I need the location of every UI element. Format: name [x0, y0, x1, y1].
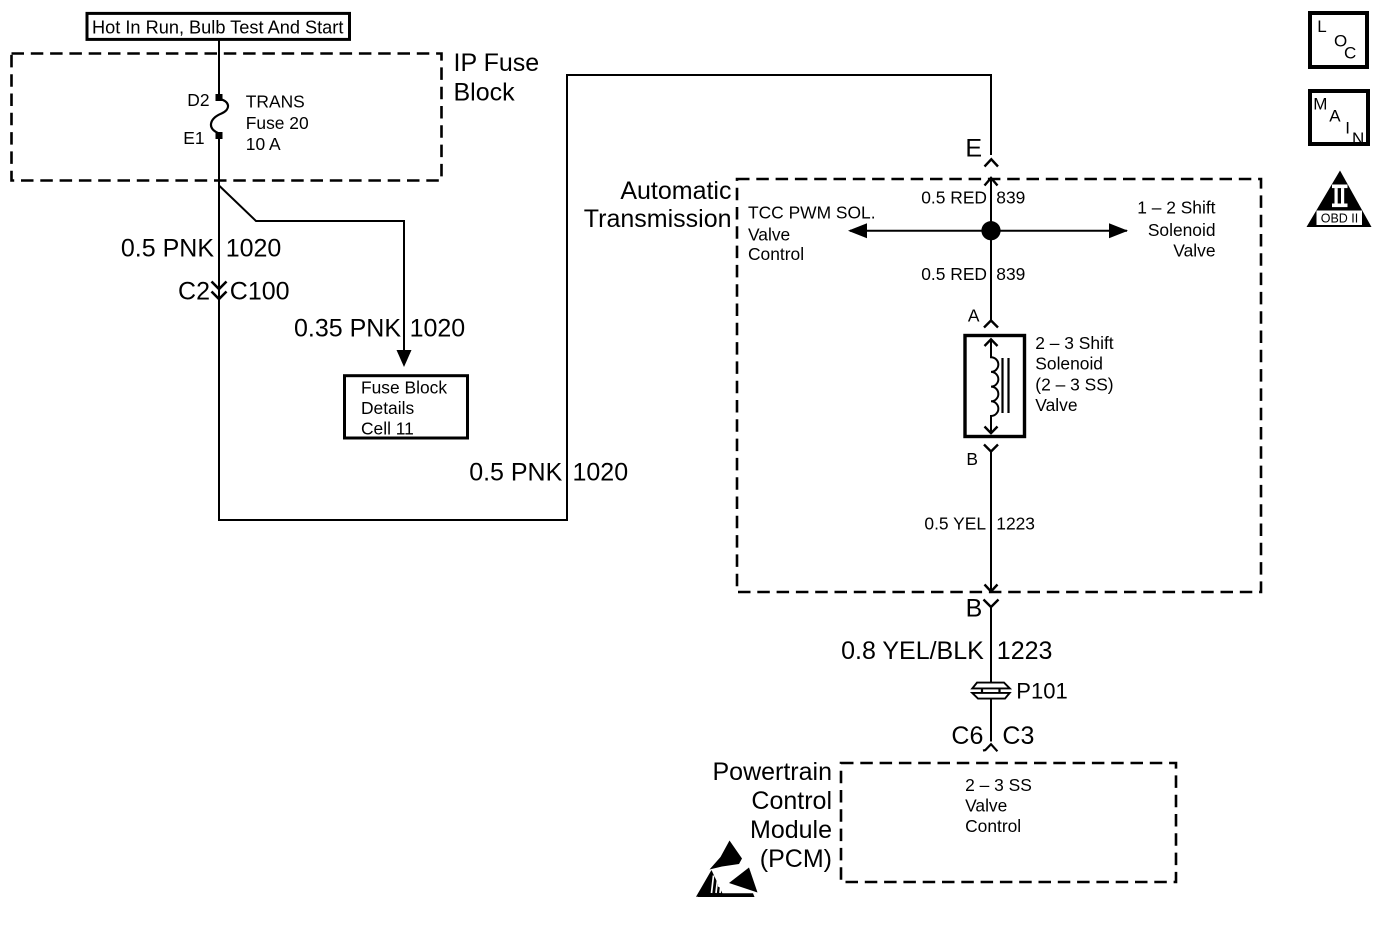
- svg-text:0.5 PNK: 0.5 PNK: [121, 234, 214, 262]
- wire B to P101: [990, 607, 992, 682]
- connector chevron C6/C3: [983, 744, 997, 751]
- fuse F20 terminal E1: [216, 132, 223, 139]
- arrowhead leaving transmission: [985, 585, 998, 592]
- fuse F20 terminal D2: [216, 94, 223, 101]
- svg-text:0.5 RED: 0.5 RED: [921, 264, 987, 284]
- arrowhead to TCC PWM: [848, 223, 867, 238]
- svg-text:M: M: [1313, 94, 1327, 113]
- wire E to junction: [990, 178, 992, 232]
- svg-text:1223: 1223: [997, 637, 1053, 665]
- svg-text:B: B: [966, 449, 978, 469]
- wire solenoid to transmission connector: [990, 452, 992, 591]
- svg-text:1020: 1020: [573, 459, 629, 487]
- IP Fuse Block dashed box: [12, 54, 442, 181]
- wire loop from C100 to transmission connector E: [219, 75, 991, 520]
- svg-text:1020: 1020: [410, 314, 466, 342]
- power feed label box: Hot In Run, Bulb Test And Start: [87, 13, 350, 39]
- connector chevron E: [985, 159, 999, 166]
- svg-text:C100: C100: [230, 278, 290, 306]
- label 0.35 PNK 1020: [294, 314, 465, 342]
- arrowhead entering connector E: [985, 178, 998, 186]
- svg-text:A: A: [1329, 106, 1341, 125]
- svg-text:OBD II: OBD II: [1321, 212, 1359, 226]
- svg-text:0.5 YEL: 0.5 YEL: [924, 514, 986, 534]
- connector C2/C100 symbol: [212, 282, 227, 300]
- wire label 0.5 RED 839 (second): [921, 264, 1025, 284]
- coil arrowhead down: [985, 427, 998, 434]
- wire junction to solenoid: [990, 240, 992, 320]
- svg-text:1020: 1020: [226, 234, 282, 262]
- fuse F20 element curve: [211, 99, 228, 133]
- svg-text:C6: C6: [951, 722, 983, 750]
- junction node: [981, 221, 1000, 240]
- Powertrain Control Module dashed box: [841, 763, 1176, 882]
- connector chevron A: [984, 321, 998, 328]
- svg-text:I: I: [1345, 118, 1350, 137]
- wire P101 to connector C6/C3: [990, 699, 992, 742]
- wire label 0.5 PNK 1020: [121, 234, 281, 262]
- 2-3 shift solenoid box: [965, 336, 1025, 437]
- svg-text:Hot In Run, Bulb Test And Star: Hot In Run, Bulb Test And Start: [92, 18, 343, 38]
- wire label 0.8 YEL/BLK 1223: [841, 637, 1052, 665]
- svg-text:839: 839: [996, 264, 1025, 284]
- fuse block details box: [345, 376, 468, 439]
- arrowhead to 1-2 shift solenoid: [1109, 223, 1128, 238]
- svg-text:0.5 RED: 0.5 RED: [921, 187, 987, 207]
- coil arrowhead up: [985, 339, 998, 346]
- branch wire to fuse block details: [219, 186, 404, 353]
- wire to TCC PWM and 1-2 shift solenoid: [850, 230, 1127, 232]
- svg-text:C: C: [1344, 44, 1356, 63]
- svg-text:0.35 PNK: 0.35 PNK: [294, 314, 401, 342]
- ESD sensitivity symbol: [696, 841, 758, 898]
- svg-text:C3: C3: [1002, 722, 1034, 750]
- inline connector P101: [972, 683, 1010, 699]
- solenoid core lines: [1001, 358, 1003, 413]
- svg-text:A: A: [968, 305, 980, 325]
- MAIN reference flag: [1310, 91, 1368, 148]
- svg-text:0.5 PNK: 0.5 PNK: [469, 459, 562, 487]
- Automatic Transmission dashed box: [737, 179, 1261, 592]
- LOC reference flag: [1310, 13, 1367, 67]
- svg-text:1223: 1223: [996, 514, 1035, 534]
- svg-text:B: B: [966, 594, 983, 622]
- svg-text:L: L: [1317, 17, 1326, 36]
- connector chevron B: [984, 445, 998, 452]
- arrowhead into fuse block details: [397, 350, 412, 367]
- svg-text:D2: D2: [187, 90, 209, 110]
- solenoid coil element: [991, 340, 998, 433]
- wire label 0.5 PNK 1020 (second): [469, 459, 628, 487]
- svg-text:E: E: [965, 134, 982, 162]
- wire label 0.5 YEL 1223: [924, 514, 1035, 534]
- svg-text:N: N: [1352, 129, 1364, 148]
- connector chevron B harness: [984, 600, 999, 608]
- wire from hot feed into fuse: [218, 40, 220, 95]
- svg-text:E1: E1: [183, 128, 204, 148]
- wire label 0.5 RED 839: [921, 187, 1025, 207]
- svg-text:P101: P101: [1016, 678, 1067, 703]
- OBD II marker: [1307, 171, 1372, 228]
- svg-text:0.8 YEL/BLK: 0.8 YEL/BLK: [841, 637, 984, 665]
- wire below fuse down to corner: [218, 139, 220, 521]
- svg-text:839: 839: [996, 187, 1025, 207]
- svg-text:C2: C2: [178, 278, 210, 306]
